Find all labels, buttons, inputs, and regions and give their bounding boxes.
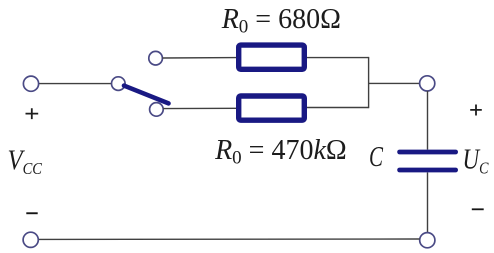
label - (source) xyxy=(26,212,37,214)
wire xyxy=(427,173,429,233)
node Vcc+ terminal xyxy=(23,76,38,91)
label - (capacitor) xyxy=(472,208,484,210)
resistor R0 = 680 ohm xyxy=(239,45,305,69)
switch S pole contact xyxy=(112,77,126,91)
wire xyxy=(38,238,419,240)
wire xyxy=(307,57,369,59)
capacitor C plate top xyxy=(400,150,456,155)
wire xyxy=(427,91,429,150)
switch throw contact 2 xyxy=(150,103,164,117)
resistor R0 = 470k ohm xyxy=(239,96,305,120)
label + (capacitor) xyxy=(470,105,482,116)
wire xyxy=(39,83,112,85)
wire xyxy=(369,82,420,84)
svg-text:C: C xyxy=(369,142,383,173)
node output terminal xyxy=(420,76,435,91)
wire xyxy=(163,57,237,59)
node bottom right terminal xyxy=(420,233,435,248)
capacitor C plate bottom xyxy=(400,168,456,173)
wire xyxy=(307,107,369,109)
wire xyxy=(163,107,236,109)
switch throw contact 1 xyxy=(149,51,163,65)
node Vcc- terminal xyxy=(23,232,38,247)
wire junction vertical xyxy=(368,57,370,108)
label + (source) xyxy=(26,108,39,119)
svg-text:R0 = 680Ω: R0 = 680Ω xyxy=(221,4,341,38)
switch S blade xyxy=(124,86,169,104)
